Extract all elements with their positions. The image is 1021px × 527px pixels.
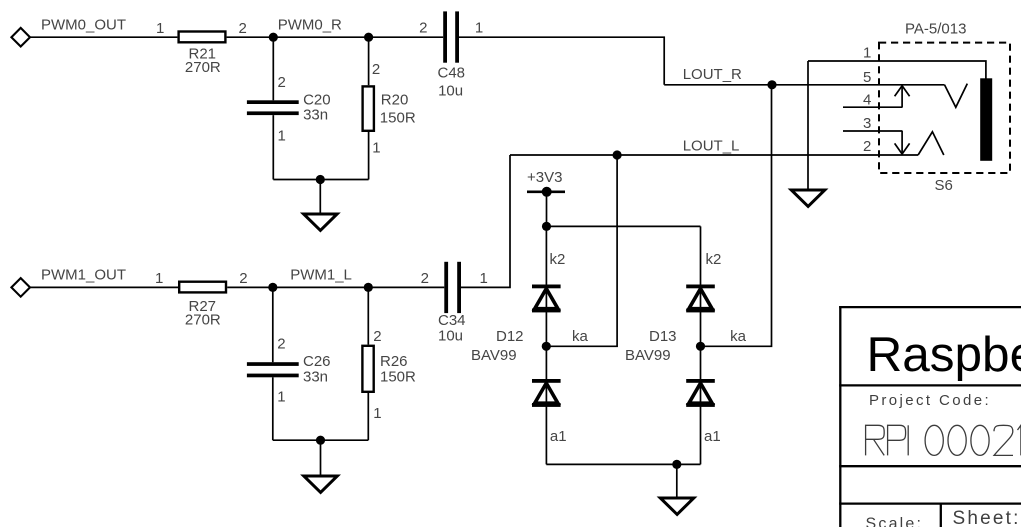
wire pin 3 stub <box>843 130 903 132</box>
wire <box>272 115 274 179</box>
wire <box>676 464 678 498</box>
svg-text:1: 1 <box>278 128 286 145</box>
svg-text:D12: D12 <box>496 328 524 345</box>
svg-text:1: 1 <box>277 389 285 406</box>
svg-text:270R: 270R <box>185 312 221 329</box>
svg-text:4: 4 <box>863 92 871 109</box>
svg-text:PWM1_L: PWM1_L <box>290 267 352 284</box>
wire <box>227 36 444 38</box>
svg-text:LOUT_L: LOUT_L <box>683 138 740 155</box>
wire <box>367 287 369 344</box>
arrow down <box>895 131 910 154</box>
svg-text:BAV99: BAV99 <box>471 347 517 364</box>
svg-text:C26: C26 <box>303 353 331 370</box>
junction <box>364 33 373 42</box>
svg-text:1: 1 <box>373 405 381 422</box>
junction ka D12 <box>542 342 551 351</box>
svg-text:1: 1 <box>475 19 483 36</box>
junction <box>767 80 776 89</box>
svg-text:R26: R26 <box>380 353 408 370</box>
ground <box>660 498 694 514</box>
resistor R21 <box>179 32 226 43</box>
wire <box>368 132 370 180</box>
svg-text:R20: R20 <box>381 91 409 108</box>
ground <box>304 214 338 230</box>
wire <box>546 463 700 465</box>
svg-text:BAV99: BAV99 <box>625 347 671 364</box>
svg-text:5: 5 <box>863 69 871 86</box>
svg-text:2: 2 <box>419 19 427 36</box>
diode D12 upper <box>532 285 561 313</box>
svg-text:2: 2 <box>239 20 247 37</box>
svg-text:10u: 10u <box>438 328 463 345</box>
junction <box>542 222 551 231</box>
wire <box>320 440 322 476</box>
svg-text:2: 2 <box>239 270 247 287</box>
svg-text:1: 1 <box>155 270 163 287</box>
svg-text:PA-5/013: PA-5/013 <box>905 21 966 38</box>
wire <box>30 36 177 38</box>
wire <box>700 226 702 464</box>
svg-text:1: 1 <box>156 20 164 37</box>
wire <box>272 377 274 440</box>
wire <box>459 37 664 85</box>
svg-text:1: 1 <box>480 270 488 287</box>
resistor R27 <box>179 282 226 293</box>
jack sleeve bar <box>980 78 992 161</box>
svg-text:S6: S6 <box>935 177 953 194</box>
port PWM0_OUT <box>11 28 30 47</box>
svg-text:2: 2 <box>372 61 380 78</box>
svg-text:150R: 150R <box>380 369 416 386</box>
title block frame <box>839 306 1021 527</box>
svg-text:C48: C48 <box>438 65 466 82</box>
svg-text:33n: 33n <box>303 107 328 124</box>
capacitor C20 <box>247 74 331 145</box>
svg-text:1: 1 <box>372 140 380 157</box>
junction <box>316 436 325 445</box>
wire <box>546 155 617 346</box>
svg-text:150R: 150R <box>380 110 416 127</box>
wire <box>546 192 548 227</box>
svg-text:2: 2 <box>421 270 429 287</box>
wire <box>547 225 701 227</box>
svg-text:1: 1 <box>863 45 871 62</box>
wire LOUT_L <box>510 154 918 156</box>
svg-text:C34: C34 <box>438 312 466 329</box>
svg-text:Raspberry Pi: Raspberry Pi <box>867 327 1021 382</box>
project code value RPI0002 <box>866 425 1021 455</box>
svg-text:3: 3 <box>863 115 871 132</box>
wire pin 1 <box>808 61 986 79</box>
svg-text:2: 2 <box>863 138 871 155</box>
wire <box>368 37 370 85</box>
junction <box>364 283 373 292</box>
svg-text:2: 2 <box>278 74 286 91</box>
svg-text:PWM1_OUT: PWM1_OUT <box>41 267 126 284</box>
svg-text:10u: 10u <box>438 83 463 100</box>
capacitor C26 <box>247 336 331 406</box>
junction <box>316 175 325 184</box>
svg-text:PWM0_R: PWM0_R <box>278 17 342 34</box>
power +3V3 <box>527 169 565 197</box>
wire <box>273 179 368 181</box>
arrow up <box>895 86 910 108</box>
junction <box>613 150 622 159</box>
junction ka D13 <box>696 342 705 351</box>
junction <box>268 283 277 292</box>
svg-text:2: 2 <box>277 336 285 353</box>
svg-text:2: 2 <box>373 328 381 345</box>
ground <box>304 476 338 492</box>
wire LOUT_R <box>664 84 944 86</box>
wire pin 4 stub <box>843 106 903 108</box>
wire <box>367 393 369 440</box>
wire <box>319 180 321 215</box>
wire <box>461 155 510 287</box>
connector S6 PA-5/013 dashed box <box>879 43 1010 173</box>
wire <box>227 286 444 288</box>
resistor R20 <box>363 61 416 157</box>
port PWM1_OUT <box>11 278 30 297</box>
svg-text:270R: 270R <box>185 59 221 76</box>
svg-text:a1: a1 <box>550 428 567 445</box>
svg-text:D13: D13 <box>649 328 677 345</box>
svg-text:ka: ka <box>730 328 747 345</box>
capacitor C48 <box>419 11 483 99</box>
jack ring contact caret <box>918 132 944 155</box>
capacitor C34 <box>421 262 488 345</box>
wire <box>545 226 547 464</box>
wire <box>272 287 274 362</box>
svg-text:Project Code:: Project Code: <box>869 392 991 409</box>
ground <box>791 190 825 206</box>
svg-text:33n: 33n <box>303 369 328 386</box>
diode D13 upper <box>686 285 715 313</box>
svg-text:ka: ka <box>572 328 589 345</box>
svg-text:PWM0_OUT: PWM0_OUT <box>41 17 126 34</box>
wire <box>273 439 369 441</box>
junction <box>269 33 278 42</box>
jack tip contact V <box>945 84 968 108</box>
resistor R26 <box>362 328 416 422</box>
wire to ground <box>807 61 809 190</box>
wire <box>272 37 274 100</box>
wire <box>30 286 178 288</box>
diode D12 lower <box>532 379 561 407</box>
svg-text:k2: k2 <box>706 251 722 268</box>
svg-text:+3V3: +3V3 <box>527 169 562 186</box>
junction <box>672 460 681 469</box>
svg-text:k2: k2 <box>550 251 566 268</box>
svg-text:Sheet:: Sheet: <box>953 508 1021 527</box>
wire <box>701 85 772 347</box>
svg-text:LOUT_R: LOUT_R <box>683 66 742 83</box>
diode D13 lower <box>686 379 715 407</box>
svg-text:a1: a1 <box>704 428 721 445</box>
svg-text:Scale:: Scale: <box>866 516 924 527</box>
